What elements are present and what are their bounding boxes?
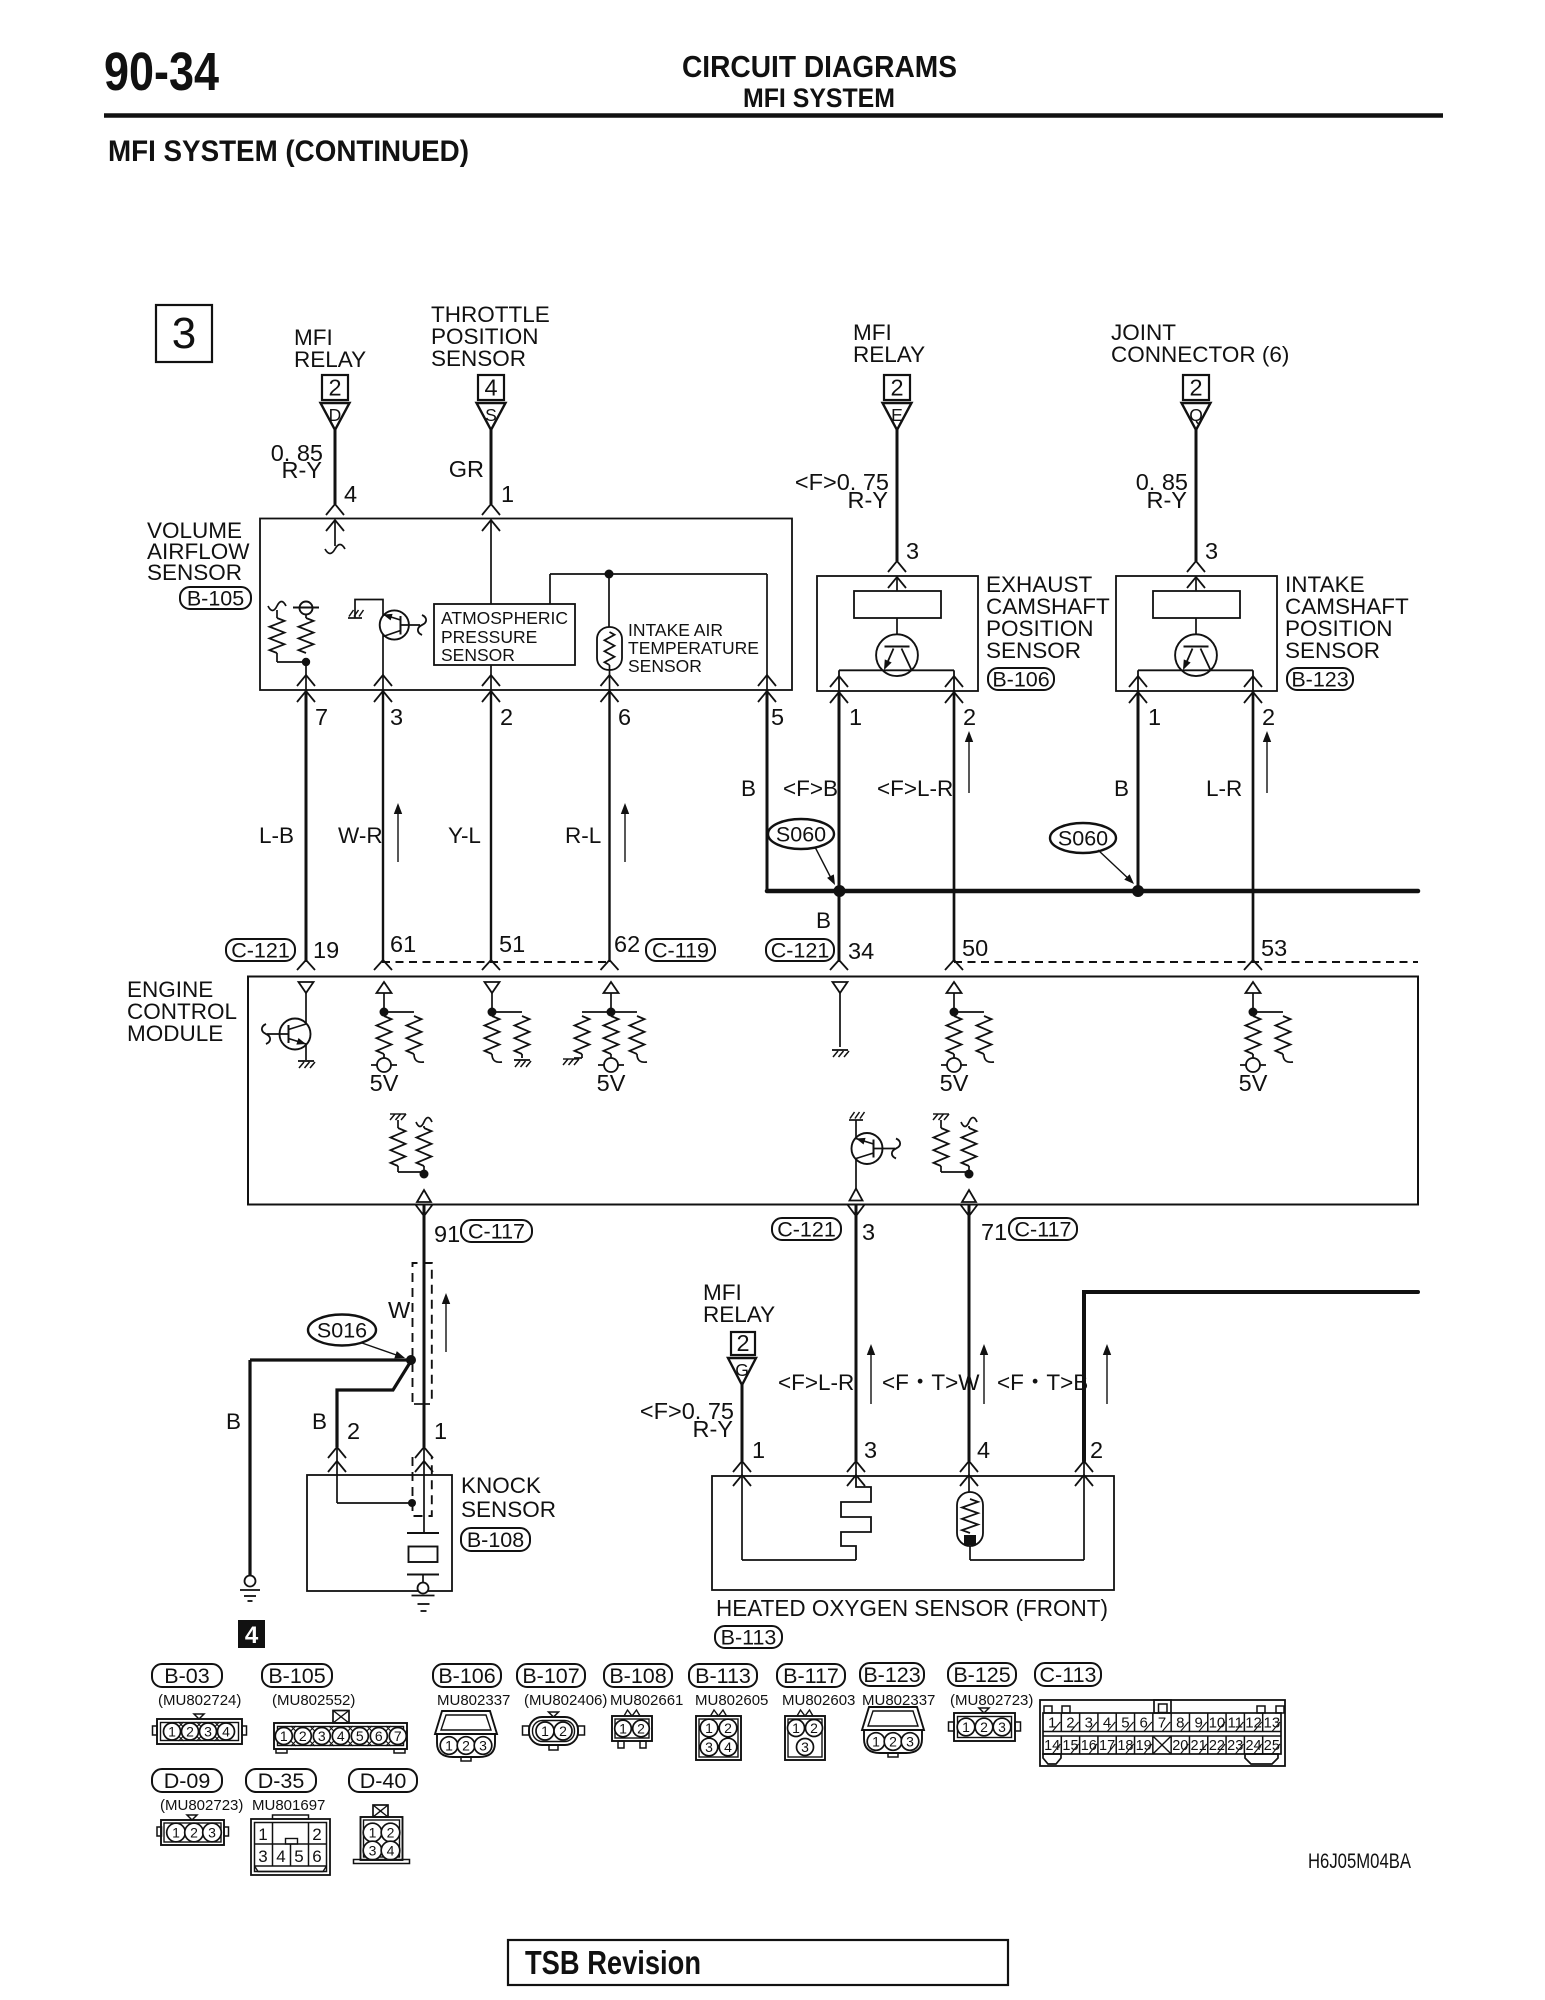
svg-text:ATMOSPHERIC: ATMOSPHERIC (441, 608, 568, 628)
svg-text:SENSOR: SENSOR (147, 560, 242, 585)
svg-text:2: 2 (963, 704, 976, 730)
svg-text:D: D (329, 405, 342, 425)
svg-text:1: 1 (705, 1720, 713, 1736)
svg-text:7: 7 (394, 1728, 402, 1744)
svg-text:3: 3 (204, 1724, 212, 1740)
svg-text:C-117: C-117 (468, 1220, 525, 1244)
svg-text:<F>B: <F>B (783, 776, 838, 801)
svg-text:S060: S060 (776, 823, 826, 847)
svg-text:CIRCUIT DIAGRAMS: CIRCUIT DIAGRAMS (682, 49, 957, 84)
svg-text:3: 3 (801, 1739, 809, 1755)
svg-text:SENSOR: SENSOR (441, 645, 515, 665)
svg-text:(MU802406): (MU802406) (524, 1692, 607, 1709)
svg-text:B-117: B-117 (783, 1664, 839, 1688)
svg-text:20: 20 (1172, 1738, 1188, 1754)
svg-text:(MU802723): (MU802723) (950, 1692, 1033, 1709)
svg-text:2: 2 (637, 1721, 645, 1737)
svg-text:C-121: C-121 (777, 1218, 836, 1242)
svg-text:RELAY: RELAY (853, 342, 925, 367)
svg-text:INTAKE AIR: INTAKE AIR (628, 620, 723, 640)
svg-text:50: 50 (962, 935, 988, 961)
svg-text:(MU802724): (MU802724) (158, 1692, 241, 1709)
svg-text:C-121: C-121 (771, 939, 830, 963)
svg-text:MFI SYSTEM (CONTINUED): MFI SYSTEM (CONTINUED) (108, 135, 469, 168)
svg-text:HEATED OXYGEN SENSOR (FRONT): HEATED OXYGEN SENSOR (FRONT) (716, 1595, 1108, 1621)
svg-text:D-09: D-09 (164, 1769, 211, 1793)
svg-text:13: 13 (1264, 1715, 1281, 1732)
svg-text:14: 14 (1044, 1738, 1060, 1754)
svg-text:H6J05M04BA: H6J05M04BA (1308, 1850, 1411, 1873)
svg-text:4: 4 (387, 1843, 395, 1859)
svg-text:3: 3 (906, 1734, 914, 1750)
svg-text:2: 2 (810, 1720, 818, 1736)
svg-text:B-106: B-106 (992, 668, 1049, 692)
svg-text:61: 61 (390, 931, 416, 957)
svg-text:C-119: C-119 (652, 939, 709, 963)
svg-text:G: G (735, 1360, 749, 1380)
svg-text:SENSOR: SENSOR (1285, 638, 1380, 663)
svg-text:21: 21 (1191, 1738, 1207, 1754)
svg-text:TSB Revision: TSB Revision (525, 1944, 701, 1981)
svg-text:3: 3 (705, 1739, 713, 1755)
svg-text:1: 1 (445, 1738, 453, 1754)
svg-text:1: 1 (434, 1418, 447, 1444)
svg-text:4: 4 (724, 1739, 732, 1755)
svg-text:2: 2 (890, 375, 903, 401)
svg-text:11: 11 (1227, 1715, 1243, 1732)
svg-text:RELAY: RELAY (703, 1302, 775, 1327)
svg-text:12: 12 (1245, 1715, 1262, 1732)
svg-text:71: 71 (981, 1219, 1007, 1245)
svg-text:5: 5 (294, 1847, 303, 1866)
svg-text:B: B (226, 1409, 241, 1434)
svg-text:MU802661: MU802661 (610, 1692, 683, 1709)
svg-text:2: 2 (736, 1330, 749, 1356)
svg-text:1: 1 (962, 1719, 970, 1735)
svg-text:KNOCK: KNOCK (461, 1473, 541, 1498)
svg-text:15: 15 (1062, 1738, 1078, 1754)
svg-text:B-107: B-107 (522, 1664, 579, 1688)
svg-text:3: 3 (318, 1728, 326, 1744)
svg-text:Y-L: Y-L (448, 823, 481, 848)
svg-text:R-Y: R-Y (693, 1416, 734, 1442)
svg-text:3: 3 (1205, 538, 1218, 564)
svg-text:1: 1 (258, 1825, 267, 1844)
svg-text:B: B (312, 1409, 327, 1434)
svg-text:D-40: D-40 (360, 1769, 407, 1793)
svg-text:R-L: R-L (565, 823, 601, 848)
svg-text:B-123: B-123 (1291, 668, 1348, 692)
svg-text:MFI SYSTEM: MFI SYSTEM (743, 83, 895, 113)
svg-text:S: S (485, 405, 497, 425)
svg-text:(MU802552): (MU802552) (272, 1692, 355, 1709)
svg-text:2: 2 (1189, 375, 1202, 401)
svg-text:2: 2 (299, 1728, 307, 1744)
svg-text:B-106: B-106 (438, 1664, 495, 1688)
svg-text:SENSOR: SENSOR (628, 656, 702, 676)
svg-text:R-Y: R-Y (282, 457, 323, 483)
svg-text:4: 4 (977, 1437, 990, 1463)
svg-text:D-35: D-35 (258, 1769, 305, 1793)
svg-text:1: 1 (541, 1723, 549, 1739)
svg-text:R-Y: R-Y (848, 487, 889, 513)
svg-text:SENSOR: SENSOR (986, 638, 1081, 663)
svg-text:B-108: B-108 (609, 1664, 666, 1688)
svg-text:1: 1 (752, 1437, 765, 1463)
svg-text:1: 1 (1148, 704, 1161, 730)
svg-text:B-123: B-123 (863, 1663, 920, 1687)
svg-text:10: 10 (1209, 1715, 1226, 1732)
svg-text:19: 19 (313, 937, 339, 963)
svg-text:<F・T>B: <F・T>B (997, 1370, 1088, 1395)
svg-text:MU802337: MU802337 (437, 1692, 510, 1709)
svg-text:SENSOR: SENSOR (431, 346, 526, 371)
svg-text:90-34: 90-34 (104, 42, 219, 102)
svg-text:1: 1 (501, 481, 514, 507)
svg-text:2: 2 (186, 1724, 194, 1740)
svg-text:2: 2 (1262, 704, 1275, 730)
svg-text:B-108: B-108 (467, 1528, 524, 1552)
svg-text:2: 2 (387, 1825, 395, 1841)
svg-text:MU801697: MU801697 (252, 1797, 325, 1814)
svg-text:1: 1 (369, 1825, 377, 1841)
svg-text:B: B (1114, 776, 1129, 801)
svg-text:B-105: B-105 (187, 587, 244, 611)
svg-text:4: 4 (222, 1724, 230, 1740)
svg-text:3: 3 (998, 1719, 1006, 1735)
svg-text:4: 4 (276, 1847, 285, 1866)
svg-text:B-03: B-03 (164, 1664, 209, 1688)
svg-text:2: 2 (328, 375, 341, 401)
svg-text:1: 1 (792, 1720, 800, 1736)
svg-text:5V: 5V (597, 1070, 626, 1096)
svg-text:1: 1 (872, 1734, 880, 1750)
svg-text:5V: 5V (940, 1070, 969, 1096)
svg-text:5V: 5V (1239, 1070, 1268, 1096)
svg-text:6: 6 (375, 1728, 383, 1744)
svg-text:3: 3 (369, 1843, 377, 1859)
svg-text:2: 2 (559, 1723, 567, 1739)
svg-text:4: 4 (484, 375, 497, 401)
svg-text:6: 6 (312, 1847, 321, 1866)
svg-text:17: 17 (1099, 1738, 1115, 1754)
svg-text:L-R: L-R (1206, 776, 1242, 801)
svg-text:R-Y: R-Y (1147, 487, 1188, 513)
svg-text:6: 6 (618, 704, 631, 730)
svg-text:3: 3 (172, 309, 196, 358)
svg-text:5: 5 (771, 704, 784, 730)
svg-text:MU802603: MU802603 (782, 1692, 855, 1709)
svg-text:24: 24 (1245, 1738, 1261, 1754)
svg-text:B-113: B-113 (695, 1664, 751, 1688)
svg-text:4: 4 (344, 481, 357, 507)
svg-text:W-R: W-R (338, 823, 383, 848)
svg-text:62: 62 (614, 931, 640, 957)
svg-text:Q: Q (1189, 405, 1203, 425)
svg-text:4: 4 (245, 1622, 259, 1649)
svg-text:B: B (741, 776, 756, 801)
svg-text:2: 2 (190, 1825, 198, 1841)
svg-text:19: 19 (1136, 1738, 1152, 1754)
svg-text:2: 2 (889, 1734, 897, 1750)
svg-text:L-B: L-B (259, 823, 294, 848)
svg-text:1: 1 (280, 1728, 288, 1744)
svg-text:91: 91 (434, 1221, 460, 1247)
svg-text:51: 51 (499, 931, 525, 957)
svg-text:3: 3 (390, 704, 403, 730)
svg-text:2: 2 (980, 1719, 988, 1735)
svg-text:3: 3 (479, 1738, 487, 1754)
svg-text:B-113: B-113 (721, 1626, 777, 1650)
svg-text:23: 23 (1227, 1738, 1243, 1754)
svg-text:2: 2 (462, 1738, 470, 1754)
svg-text:7: 7 (315, 704, 328, 730)
svg-text:B-125: B-125 (953, 1663, 1010, 1687)
svg-text:3: 3 (208, 1825, 216, 1841)
svg-text:3: 3 (258, 1847, 267, 1866)
svg-text:18: 18 (1117, 1738, 1133, 1754)
svg-text:CONNECTOR (6): CONNECTOR (6) (1111, 342, 1289, 367)
svg-text:<F>L-R: <F>L-R (877, 776, 953, 801)
svg-text:5V: 5V (370, 1070, 399, 1096)
svg-text:25: 25 (1264, 1738, 1280, 1754)
svg-text:(MU802723): (MU802723) (160, 1797, 243, 1814)
svg-text:34: 34 (848, 938, 874, 964)
svg-text:5: 5 (356, 1728, 364, 1744)
svg-text:GR: GR (449, 456, 484, 482)
svg-text:2: 2 (500, 704, 513, 730)
svg-text:MU802605: MU802605 (695, 1692, 768, 1709)
svg-text:1: 1 (619, 1721, 627, 1737)
svg-text:1: 1 (849, 704, 862, 730)
svg-text:2: 2 (312, 1825, 321, 1844)
svg-text:2: 2 (1090, 1437, 1103, 1463)
svg-text:MODULE: MODULE (127, 1021, 223, 1046)
svg-text:TEMPERATURE: TEMPERATURE (628, 638, 759, 658)
svg-text:3: 3 (906, 538, 919, 564)
svg-text:W: W (388, 1297, 411, 1323)
svg-text:22: 22 (1209, 1738, 1225, 1754)
svg-text:53: 53 (1261, 935, 1287, 961)
svg-text:S016: S016 (317, 1319, 367, 1343)
svg-text:16: 16 (1081, 1738, 1097, 1754)
svg-text:B: B (816, 908, 831, 933)
svg-text:<F>L-R: <F>L-R (778, 1370, 854, 1395)
svg-text:PRESSURE: PRESSURE (441, 627, 537, 647)
svg-text:3: 3 (864, 1437, 877, 1463)
svg-text:2: 2 (724, 1720, 732, 1736)
svg-text:C-117: C-117 (1015, 1218, 1072, 1242)
svg-text:2: 2 (347, 1418, 360, 1444)
svg-text:B-105: B-105 (268, 1664, 325, 1688)
svg-text:<F・T>W: <F・T>W (882, 1370, 980, 1395)
svg-text:RELAY: RELAY (294, 347, 366, 372)
svg-text:SENSOR: SENSOR (461, 1497, 556, 1522)
svg-text:S060: S060 (1058, 827, 1108, 851)
svg-text:C-121: C-121 (231, 939, 290, 963)
svg-text:1: 1 (168, 1724, 176, 1740)
svg-text:1: 1 (172, 1825, 180, 1841)
svg-text:3: 3 (862, 1219, 875, 1245)
svg-text:E: E (891, 405, 903, 425)
svg-text:4: 4 (337, 1728, 345, 1744)
svg-text:C-113: C-113 (1040, 1663, 1097, 1687)
